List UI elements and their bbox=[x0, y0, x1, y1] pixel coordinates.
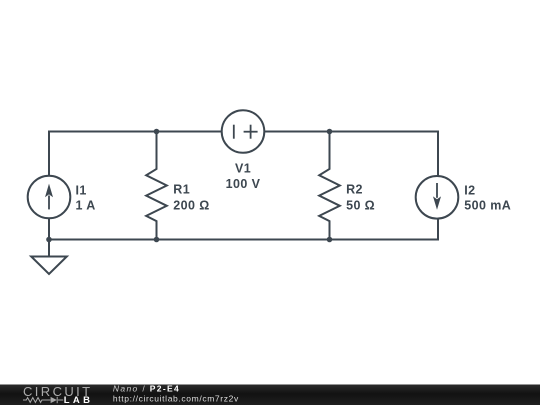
svg-text:100 V: 100 V bbox=[226, 177, 261, 191]
svg-text:50 Ω: 50 Ω bbox=[346, 198, 375, 212]
svg-text:R1: R1 bbox=[173, 182, 190, 196]
svg-text:LAB: LAB bbox=[64, 395, 94, 405]
svg-text:I2: I2 bbox=[464, 184, 475, 198]
svg-text:R2: R2 bbox=[346, 182, 363, 196]
svg-text:500 mA: 500 mA bbox=[464, 198, 511, 212]
svg-text:V1: V1 bbox=[235, 162, 251, 176]
svg-text:1 A: 1 A bbox=[76, 198, 96, 212]
svg-text:I1: I1 bbox=[76, 184, 87, 198]
svg-text:200 Ω: 200 Ω bbox=[173, 198, 209, 212]
svg-text:Nano / P2-E4: Nano / P2-E4 bbox=[113, 383, 180, 393]
svg-text:http://circuitlab.com/cm7rz2v: http://circuitlab.com/cm7rz2v bbox=[113, 394, 239, 404]
